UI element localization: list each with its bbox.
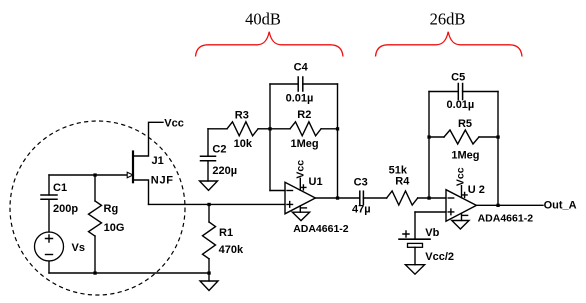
svg-text:R3: R3	[235, 110, 249, 122]
svg-text:U 2: U 2	[468, 184, 485, 196]
svg-text:R1: R1	[219, 227, 233, 239]
svg-text:ADA4661-2: ADA4661-2	[478, 212, 534, 224]
svg-text:470k: 470k	[219, 244, 244, 256]
svg-text:40dB: 40dB	[245, 10, 281, 29]
svg-text:R2: R2	[297, 109, 311, 121]
svg-text:Rg: Rg	[104, 203, 119, 215]
svg-text:U1: U1	[309, 176, 323, 188]
svg-text:NJF: NJF	[151, 175, 174, 187]
svg-text:C1: C1	[53, 182, 67, 194]
svg-text:R5: R5	[458, 118, 472, 130]
svg-text:220µ: 220µ	[212, 165, 237, 177]
svg-text:C3: C3	[354, 177, 368, 189]
svg-text:200p: 200p	[53, 203, 78, 215]
svg-text:Vb: Vb	[425, 227, 439, 239]
svg-text:10G: 10G	[104, 222, 125, 234]
svg-text:47µ: 47µ	[352, 204, 371, 216]
svg-text:1Meg: 1Meg	[291, 138, 319, 150]
svg-text:Vcc: Vcc	[295, 160, 307, 179]
svg-text:Vs: Vs	[72, 242, 85, 254]
svg-text:10k: 10k	[234, 138, 253, 150]
svg-text:0.01µ: 0.01µ	[447, 99, 475, 111]
svg-text:R4: R4	[395, 176, 410, 188]
svg-text:C4: C4	[294, 62, 309, 74]
svg-text:51k: 51k	[389, 165, 408, 177]
svg-text:ADA4661-2: ADA4661-2	[293, 223, 349, 235]
svg-text:C5: C5	[451, 72, 465, 84]
svg-text:J1: J1	[152, 155, 164, 167]
svg-text:Vcc: Vcc	[454, 167, 466, 186]
svg-text:Out_A: Out_A	[544, 200, 577, 212]
svg-text:1Meg: 1Meg	[451, 149, 479, 161]
svg-text:0.01µ: 0.01µ	[286, 92, 314, 104]
svg-text:C2: C2	[212, 144, 226, 156]
svg-text:Vcc/2: Vcc/2	[425, 251, 454, 263]
svg-text:Vcc: Vcc	[164, 117, 184, 129]
svg-text:26dB: 26dB	[430, 10, 466, 29]
